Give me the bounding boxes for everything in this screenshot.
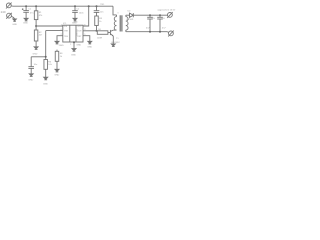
- node rail-C1: [25, 5, 27, 7]
- ground (IC pin1): [55, 41, 59, 44]
- diode D2: [130, 13, 134, 17]
- wire emitter to ground: [112, 36, 114, 44]
- svg-text:240: 240: [1, 10, 6, 14]
- wire timing node horizontal: [31, 56, 46, 58]
- svg-text:TRG: TRG: [64, 36, 69, 38]
- svg-text:4n7: 4n7: [162, 28, 166, 30]
- svg-text:R1: R1: [39, 12, 43, 14]
- capacitor C4: [94, 11, 100, 13]
- wire R6 top stub: [56, 50, 58, 52]
- connector J3 (output +): [167, 12, 173, 18]
- wire IC pin 3 to R4: [83, 30, 97, 32]
- wire R5 bottom lead: [45, 69, 47, 77]
- wire node column: [45, 31, 47, 60]
- ground (R6): [55, 69, 59, 72]
- svg-text:100R: 100R: [97, 38, 103, 40]
- capacitor C3: [28, 67, 34, 69]
- svg-text:GND: GND: [87, 46, 92, 48]
- wire R1 top lead: [35, 6, 37, 11]
- wire R1 bottom to node: [35, 20, 37, 30]
- connector J4 (output -): [168, 31, 174, 37]
- svg-text:C1: C1: [28, 8, 32, 10]
- wire IC gnd pin bottom: [73, 42, 75, 49]
- wire C2 bottom lead: [74, 12, 76, 18]
- capacitor C6: [157, 15, 163, 32]
- svg-text:GND: GND: [71, 54, 76, 56]
- svg-text:DIS: DIS: [64, 26, 68, 28]
- svg-text:tr: tr: [118, 12, 120, 15]
- ground (C2): [73, 18, 77, 21]
- ground (C3): [29, 74, 33, 77]
- svg-text:D2: D2: [128, 10, 132, 12]
- capacitor C5: [147, 15, 153, 32]
- wire diode to output connector: [133, 14, 167, 16]
- svg-text:GND: GND: [33, 54, 38, 56]
- node rail riser: [88, 5, 90, 7]
- wire C4 top lead: [96, 6, 98, 11]
- svg-text:1k: 1k: [99, 21, 102, 23]
- ground (pin5): [88, 41, 92, 44]
- resistor R3: [95, 16, 99, 26]
- wire to output connector 2: [167, 31, 168, 34]
- wire R6 bottom lead: [56, 61, 58, 69]
- timer IC1 box: [63, 25, 83, 42]
- wire R3 bottom to node: [96, 26, 98, 31]
- wire secondary top to diode: [126, 14, 130, 16]
- transformer TR1 primary: [114, 17, 116, 31]
- svg-text:R6: R6: [60, 53, 64, 55]
- ground (R5): [44, 77, 48, 80]
- wire R4 to base: [108, 32, 111, 34]
- resistor R2: [34, 30, 38, 41]
- svg-text:GND: GND: [43, 83, 48, 85]
- svg-text:GND: GND: [23, 23, 28, 25]
- svg-text:VCC: VCC: [77, 26, 82, 28]
- wire C2 top lead: [74, 6, 76, 11]
- node C5 top: [149, 14, 151, 16]
- resistor R6: [55, 51, 59, 61]
- svg-text:BY509: BY509: [127, 19, 134, 21]
- svg-text:R5: R5: [48, 61, 52, 63]
- svg-text:10n: 10n: [100, 11, 104, 13]
- IC1 internal dividers: [69, 25, 71, 42]
- wire rail corner to primary top: [113, 6, 117, 15]
- node rail-C2: [74, 5, 76, 7]
- ground (C1): [24, 18, 28, 21]
- wire C1 bottom lead: [25, 12, 27, 18]
- ground (R2): [34, 47, 38, 50]
- svg-text:R3: R3: [99, 18, 103, 20]
- wire node to IC pin 7: [36, 25, 63, 27]
- svg-text:10n: 10n: [34, 64, 38, 66]
- wire C1 top lead: [25, 6, 27, 10]
- svg-text:IC1: IC1: [63, 23, 67, 25]
- wire rail to IC pin 8: [83, 6, 89, 26]
- wire secondary bottom rail: [126, 31, 168, 33]
- wire J2 to earth: [11, 16, 14, 18]
- connector J2 (mains earth): [6, 13, 12, 19]
- wire collector to transformer primary: [113, 29, 116, 31]
- node C3/R5: [45, 56, 47, 58]
- ground (IC1): [72, 49, 76, 52]
- node rail-C4: [96, 5, 98, 7]
- svg-text:GND: GND: [12, 24, 17, 26]
- svg-text:C6: C6: [162, 18, 166, 20]
- wire IC pin 5 to ground: [83, 36, 90, 42]
- svg-text:C2: C2: [76, 9, 80, 11]
- capacitor C1 polarized: [22, 8, 29, 12]
- svg-text:GND: GND: [28, 80, 33, 82]
- wire IC pin 2/6 to node: [46, 30, 63, 32]
- wire R2 bottom lead: [35, 41, 37, 47]
- capacitor C2: [72, 11, 78, 13]
- connector J1 (mains live): [6, 3, 13, 9]
- svg-text:1: 1: [70, 44, 72, 46]
- svg-text:GND: GND: [72, 23, 77, 25]
- node rail-R1: [35, 5, 37, 7]
- svg-text:NE555: NE555: [76, 28, 78, 35]
- wire C4 to R3: [96, 12, 98, 16]
- svg-text:T1: T1: [116, 38, 119, 40]
- svg-text:100n: 100n: [79, 12, 85, 14]
- resistor R5: [44, 60, 48, 70]
- wire IC pin 1 to ground: [57, 36, 63, 42]
- svg-text:4k7: 4k7: [39, 35, 43, 37]
- pin labels IC1 left column: [61, 25, 87, 46]
- wire top supply rail: [13, 5, 113, 7]
- svg-text:47u: 47u: [30, 13, 34, 15]
- resistor R4: [97, 31, 108, 35]
- svg-text:THR: THR: [64, 31, 69, 33]
- ground (Q1): [111, 44, 115, 47]
- transistor Q1: [110, 30, 113, 36]
- svg-text:1k: 1k: [60, 56, 63, 58]
- wire C3 bottom lead: [30, 68, 32, 73]
- svg-text:47k: 47k: [39, 15, 43, 17]
- transformer TR1 secondary: [126, 17, 128, 31]
- svg-text:C5: C5: [152, 18, 156, 20]
- wire C3 top lead: [30, 57, 32, 67]
- svg-text:GND: GND: [76, 44, 81, 46]
- svg-text:GND: GND: [59, 45, 64, 47]
- resistor R1: [34, 11, 38, 20]
- svg-text:10k: 10k: [48, 64, 52, 66]
- node R1-R2 junction: [35, 25, 37, 27]
- svg-text:opgenomen 15 kV: opgenomen 15 kV: [158, 9, 176, 11]
- svg-text:GND: GND: [54, 74, 59, 76]
- ground (input earth): [13, 19, 17, 22]
- svg-text:R2: R2: [39, 32, 43, 34]
- transformer core: [119, 15, 121, 31]
- node C6 top: [159, 14, 161, 16]
